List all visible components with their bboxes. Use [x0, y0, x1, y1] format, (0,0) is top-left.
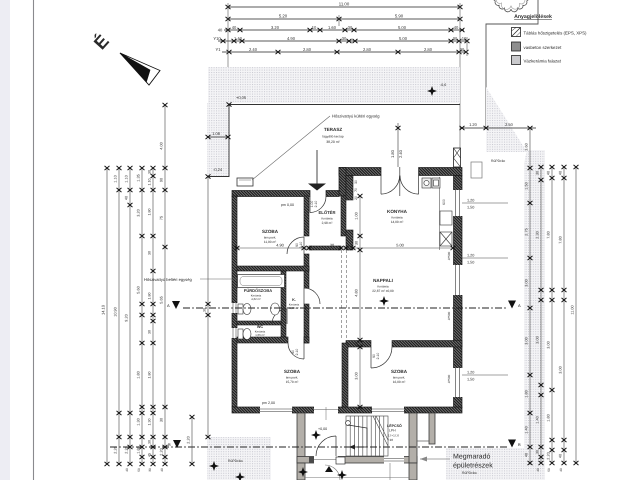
svg-text:5.00: 5.00 — [399, 36, 408, 41]
door dim labels szoba BR — [372, 353, 380, 360]
svg-text:épületrészek: épületrészek — [453, 462, 493, 470]
svg-text:1.10: 1.10 — [114, 175, 118, 182]
svg-text:1.10: 1.10 — [148, 179, 152, 186]
interior wall eloter bottom — [309, 246, 341, 250]
below lobby wall right — [409, 463, 417, 480]
svg-text:1,20: 1,20 — [467, 254, 474, 258]
svg-text:1,50: 1,50 — [467, 206, 474, 210]
svg-text:2.40: 2.40 — [249, 47, 258, 52]
top dim row 2 — [226, 17, 463, 21]
svg-text:1,50: 1,50 — [467, 378, 474, 382]
svg-text:50: 50 — [547, 468, 551, 472]
svg-text:ELŐTÉR: ELŐTÉR — [319, 210, 336, 215]
sparkle lobby — [311, 430, 321, 440]
svg-text:1.50: 1.50 — [525, 182, 529, 189]
svg-text:30: 30 — [355, 342, 359, 346]
section marker A right — [508, 301, 521, 309]
right dim chain 3 — [550, 165, 555, 465]
lobby door arc — [316, 436, 336, 456]
kitchen stove — [440, 232, 452, 246]
kitchen counter — [439, 177, 441, 250]
interior wall eloter east — [341, 196, 346, 236]
svg-text:SZOBA: SZOBA — [262, 229, 279, 234]
svg-text:Hőszivattyú kültéri egység: Hőszivattyú kültéri egység — [332, 114, 380, 119]
svg-text:3.00: 3.00 — [547, 341, 551, 348]
svg-text:Y10: Y10 — [213, 36, 221, 41]
sparkle terrace right — [427, 86, 437, 96]
lobby wall left — [297, 413, 305, 463]
svg-text:2.75: 2.75 — [525, 228, 529, 235]
svg-text:+0,05: +0,05 — [236, 95, 247, 100]
lobby door gap bottom — [314, 456, 338, 464]
svg-text:5.60: 5.60 — [137, 286, 141, 293]
room label KONYHA — [387, 209, 408, 224]
legend item 1 insulation — [512, 28, 587, 37]
svg-text:1.60: 1.60 — [328, 25, 337, 30]
svg-text:2.30: 2.30 — [536, 231, 540, 238]
interior wall K east upper — [304, 271, 309, 288]
door south lobby gap — [314, 407, 338, 414]
svg-text:40: 40 — [125, 468, 129, 472]
svg-text:1.40: 1.40 — [234, 36, 243, 41]
svg-text:40: 40 — [559, 454, 563, 458]
page frame vertical line — [33, 0, 35, 480]
svg-text:SZOBA: SZOBA — [391, 369, 408, 374]
svg-text:1.80: 1.80 — [137, 446, 141, 453]
interior dim vertical nappali — [358, 194, 363, 409]
svg-text:30: 30 — [148, 251, 152, 255]
svg-text:7.80: 7.80 — [547, 231, 551, 238]
right dim chain 1 — [528, 128, 533, 465]
window west bath — [232, 303, 238, 313]
svg-text:SZOBA: SZOBA — [284, 369, 301, 374]
room label NAPPALI — [372, 278, 394, 293]
bathtub — [238, 275, 285, 288]
svg-text:Megmaradó: Megmaradó — [453, 453, 490, 461]
window callout east 2 — [462, 254, 508, 265]
svg-text:1.40: 1.40 — [525, 426, 529, 433]
room label SZOBA bottom left — [284, 369, 301, 384]
svg-text:30: 30 — [460, 47, 465, 52]
svg-text:3.00: 3.00 — [559, 366, 563, 373]
svg-text:Táblás hőszigetelés (EPS, XPS): Táblás hőszigetelés (EPS, XPS) — [524, 31, 587, 36]
outer wall top left section — [232, 191, 339, 197]
svg-text:1.80: 1.80 — [525, 390, 529, 397]
right dim chain 2 — [539, 165, 544, 465]
interior wall wc bottom — [237, 337, 288, 343]
svg-text:30: 30 — [203, 308, 207, 312]
svg-text:40: 40 — [547, 171, 551, 175]
dim extension lines — [228, 3, 467, 167]
room label K — [289, 298, 300, 310]
window south 2 — [372, 407, 404, 414]
svg-text:1,06 m²: 1,06 m² — [255, 333, 265, 337]
stipple bottom right block — [446, 448, 528, 480]
kitchen sink — [422, 178, 440, 188]
section marker A left — [167, 301, 180, 309]
kitchen fridge — [440, 211, 452, 225]
interior dim horizontal — [235, 246, 456, 250]
svg-text:30: 30 — [536, 450, 540, 454]
svg-text:10: 10 — [462, 36, 467, 41]
left dim chain 8 slab — [206, 177, 211, 440]
svg-text:30: 30 — [348, 25, 353, 30]
svg-text:14.10: 14.10 — [101, 304, 106, 315]
toilet wc — [238, 329, 251, 340]
room label FURDOSZOBA — [244, 288, 272, 301]
svg-text:30: 30 — [536, 171, 540, 175]
svg-text:Kerámia: Kerámia — [391, 216, 403, 220]
svg-text:40: 40 — [559, 171, 563, 175]
text Megmarado epuletreszek — [453, 453, 493, 470]
svg-text:11.00: 11.00 — [339, 2, 350, 7]
interior wall kitchen west upper — [346, 176, 353, 201]
window east 2 — [453, 265, 463, 295]
leader belteri — [200, 278, 237, 280]
svg-text:3.00: 3.00 — [525, 279, 529, 286]
svg-text:A: A — [167, 303, 170, 308]
svg-text:3.60: 3.60 — [525, 143, 529, 150]
svg-text:14,00 m²: 14,00 m² — [391, 220, 404, 224]
left dim chain 1 — [105, 166, 110, 466]
interior wall szoba-eloter upper — [304, 196, 309, 236]
svg-text:2.20: 2.20 — [125, 446, 129, 453]
section marker B right — [508, 440, 521, 448]
lobby door jambs — [309, 457, 314, 464]
svg-text:70: 70 — [354, 188, 358, 192]
svg-text:LPH: LPH — [389, 429, 396, 433]
svg-text:1.80: 1.80 — [547, 414, 551, 421]
right dim chain 4 — [562, 165, 567, 465]
svg-text:pm 0,00: pm 0,00 — [281, 203, 294, 207]
svg-text:1.00: 1.00 — [355, 212, 359, 219]
entry arrow marker — [308, 150, 326, 191]
interior wall K west — [281, 271, 286, 337]
svg-text:30: 30 — [148, 170, 152, 174]
svg-text:2.80: 2.80 — [424, 47, 433, 52]
stair walk line — [346, 421, 367, 450]
room label SZOBA top left — [262, 229, 279, 244]
interior wall below szoba TL — [237, 266, 309, 271]
svg-text:B: B — [518, 442, 521, 447]
svg-text:22,87 m² ±0,00: 22,87 m² ±0,00 — [372, 289, 394, 293]
svg-text:30: 30 — [148, 468, 152, 472]
window south 1 — [260, 407, 292, 414]
svg-text:WC: WC — [257, 325, 264, 329]
svg-text:2.20: 2.20 — [547, 452, 551, 459]
svg-text:2.10: 2.10 — [295, 349, 299, 356]
top dim row 4 — [218, 39, 470, 43]
left dim chain 4 — [140, 166, 145, 466]
svg-text:LÉPCSŐ: LÉPCSŐ — [387, 423, 402, 428]
svg-text:2.80: 2.80 — [363, 47, 372, 52]
top dim row 3 — [224, 28, 465, 32]
svg-text:KONYHA: KONYHA — [387, 209, 408, 214]
svg-text:2.20: 2.20 — [160, 448, 164, 455]
sparkle below lobby 1 — [298, 467, 308, 477]
heat pump outdoor unit — [237, 178, 253, 186]
window west wc — [232, 328, 238, 338]
svg-text:2.10: 2.10 — [376, 353, 380, 360]
outer wall top right section — [339, 168, 462, 197]
room label WC — [255, 325, 266, 337]
svg-text:2.20: 2.20 — [187, 436, 191, 443]
site boundary line — [486, 0, 538, 128]
svg-text:11.00: 11.00 — [571, 305, 575, 314]
svg-text:vasbeton szerkezet: vasbeton szerkezet — [524, 45, 563, 50]
svg-text:JP500: JP500 — [447, 311, 451, 320]
svg-text:1.20: 1.20 — [469, 122, 478, 127]
svg-text:Kerámia: Kerámia — [321, 217, 333, 221]
door dim labels szoba BL — [291, 349, 299, 356]
sparkle bottom left — [209, 461, 219, 471]
svg-text:40: 40 — [525, 453, 529, 457]
outer wall right — [454, 176, 463, 408]
existing wall stub right of lobby — [429, 413, 435, 444]
bottom tick labels left — [125, 468, 164, 472]
left dim chain 2 — [117, 166, 122, 466]
toilet bath — [238, 304, 251, 315]
svg-text:3.00: 3.00 — [355, 372, 359, 379]
outer wall left — [232, 196, 237, 407]
svg-text:lam.park.: lam.park. — [264, 236, 277, 240]
svg-text:3.20: 3.20 — [271, 25, 280, 30]
svg-text:4.80: 4.80 — [355, 289, 359, 296]
svg-text:75: 75 — [160, 216, 164, 220]
svg-text:5.00: 5.00 — [396, 243, 404, 248]
svg-text:Kerámia: Kerámia — [377, 285, 389, 289]
window east 1 — [453, 190, 463, 216]
svg-text:K.: K. — [292, 298, 296, 302]
section line A — [183, 307, 508, 309]
left dim chain 7 short — [190, 415, 195, 466]
svg-text:15,70 m²: 15,70 m² — [286, 380, 299, 384]
svg-text:1.10: 1.10 — [125, 175, 129, 182]
below lobby wall left — [297, 463, 305, 480]
section marker B left — [168, 440, 181, 448]
lobby wall right — [409, 413, 417, 463]
svg-text:1.30: 1.30 — [148, 419, 152, 426]
terrace slab edge left — [208, 105, 229, 177]
door dim labels entry — [310, 201, 318, 208]
window callout east 3 — [462, 371, 508, 382]
svg-text:2.40: 2.40 — [398, 149, 403, 158]
svg-text:FÜRDŐSZOBA: FÜRDŐSZOBA — [244, 288, 272, 293]
legend item 2 concrete — [512, 42, 563, 51]
outer wall bottom — [232, 407, 462, 413]
sparkle bottom mid — [235, 472, 245, 480]
right bottom tick labels — [536, 468, 563, 472]
svg-text:7.80: 7.80 — [559, 236, 563, 243]
corner mark +0.05 — [227, 102, 232, 106]
svg-text:38,20 m²: 38,20 m² — [326, 140, 340, 144]
svg-text:40: 40 — [232, 25, 237, 30]
svg-text:2.10: 2.10 — [299, 242, 303, 249]
svg-text:50: 50 — [137, 468, 141, 472]
svg-text:Hőszivattyú beltéri egység: Hőszivattyú beltéri egység — [144, 277, 193, 282]
svg-text:2.10: 2.10 — [314, 201, 318, 208]
leader arrow megmarado — [420, 457, 450, 462]
svg-text:1,20: 1,20 — [467, 371, 474, 375]
svg-text:1.30: 1.30 — [137, 418, 141, 425]
right dim chain 5 — [574, 165, 579, 465]
svg-text:pm 2,00: pm 2,00 — [262, 401, 275, 405]
svg-text:B: B — [168, 442, 171, 447]
chimney top right — [454, 148, 461, 167]
legend item 3 masonry — [512, 56, 562, 65]
svg-text:11,00 m²: 11,00 m² — [264, 240, 276, 244]
svg-text:1.40: 1.40 — [536, 416, 540, 423]
svg-text:2.20: 2.20 — [114, 446, 118, 453]
interior wall K east lower — [304, 304, 309, 343]
svg-text:Y1: Y1 — [215, 47, 221, 52]
door K — [304, 288, 320, 304]
svg-text:1,50: 1,50 — [467, 261, 474, 265]
stipple left column — [207, 103, 230, 176]
svg-text:90: 90 — [160, 178, 164, 182]
window type labels east wall — [447, 251, 451, 383]
svg-text:-0,24: -0,24 — [213, 167, 223, 172]
passage dashed opening — [342, 250, 347, 340]
svg-text:-0,6: -0,6 — [440, 83, 446, 87]
svg-text:4.00: 4.00 — [160, 142, 164, 149]
svg-text:1.80: 1.80 — [390, 149, 395, 158]
svg-text:lam.park.: lam.park. — [393, 376, 406, 380]
svg-text:40: 40 — [125, 196, 129, 200]
french door leaves terrace — [381, 167, 419, 196]
door szoba BL — [288, 343, 304, 359]
svg-text:20: 20 — [354, 196, 358, 200]
svg-text:30: 30 — [342, 36, 347, 41]
svg-text:3.00: 3.00 — [525, 337, 529, 344]
interior wall nappali-szoba divider — [346, 341, 371, 348]
door bath — [272, 309, 287, 324]
svg-text:5.20: 5.20 — [279, 14, 288, 19]
svg-text:40: 40 — [536, 468, 540, 472]
north arrow — [120, 53, 160, 85]
dim 1.20 2.50 top right — [460, 127, 536, 129]
svg-text:30: 30 — [355, 241, 359, 245]
left page margin band — [0, 0, 10, 480]
door marker triangle — [325, 466, 333, 472]
interior wall szoba-eloter lower — [304, 254, 309, 271]
svg-text:NAPPALI: NAPPALI — [373, 278, 393, 283]
svg-text:1.35: 1.35 — [137, 174, 141, 181]
window callout east 1 — [462, 199, 508, 210]
left dim chain 6 — [163, 103, 168, 466]
sparkle nappali — [379, 296, 389, 306]
svg-text:JP500: JP500 — [447, 251, 451, 260]
section line B — [110, 446, 508, 448]
svg-text:RüPDcke: RüPDcke — [491, 159, 505, 163]
svg-text:9.20: 9.20 — [125, 314, 129, 321]
svg-text:1.80: 1.80 — [148, 209, 152, 216]
door dim labels szoba TL — [295, 242, 303, 249]
window east 3 — [453, 368, 463, 397]
svg-text:17×17,6: 17×17,6 — [388, 434, 399, 438]
lobby wall bottom — [297, 457, 417, 464]
interior wall szoba BL-BR divider — [342, 343, 348, 407]
washbasin bath — [271, 303, 280, 315]
svg-text:10.90: 10.90 — [114, 307, 118, 317]
svg-text:30: 30 — [148, 330, 152, 334]
svg-text:fagyálló ker.lap: fagyálló ker.lap — [322, 135, 343, 139]
svg-text:2.80: 2.80 — [303, 47, 312, 52]
svg-text:lam.park.: lam.park. — [286, 376, 299, 380]
kitchen west dim labels — [354, 180, 358, 200]
below lobby lines — [305, 463, 409, 480]
terrace slab edge top — [229, 104, 460, 106]
svg-text:5.90: 5.90 — [395, 14, 404, 19]
svg-text:40: 40 — [454, 25, 459, 30]
door szoba TL — [287, 237, 304, 254]
svg-text:30: 30 — [453, 36, 458, 41]
terrace door dim line — [397, 123, 399, 167]
svg-text:5.65: 5.65 — [160, 296, 164, 303]
svg-text:4.90: 4.90 — [276, 243, 284, 248]
dim 1.08 left of terrace — [207, 136, 229, 138]
room label SZOBA bottom right — [391, 369, 408, 384]
north label É — [90, 31, 113, 53]
sparkle below lobby 2 — [337, 470, 347, 480]
interior wall kitchen west lower — [346, 230, 353, 250]
svg-text:+0,00: +0,00 — [318, 427, 327, 431]
svg-text:TERASZ: TERASZ — [324, 127, 343, 132]
lobby window bottom — [384, 456, 404, 464]
top dim row 1 — [226, 5, 463, 9]
door szoba BR — [371, 347, 392, 368]
svg-text:1.08: 1.08 — [212, 131, 221, 136]
staircase — [346, 416, 388, 456]
svg-text:RüPDckw: RüPDckw — [462, 471, 477, 475]
svg-text:600: 600 — [442, 199, 446, 205]
svg-text:/ 28: / 28 — [388, 438, 393, 442]
interior wall bath-wc divider — [237, 321, 281, 325]
svg-text:16,00 m²: 16,00 m² — [393, 380, 406, 384]
svg-text:1,20: 1,20 — [467, 199, 474, 203]
svg-text:3.00: 3.00 — [536, 336, 540, 343]
svg-text:40: 40 — [218, 28, 223, 33]
left dim chain 5 — [151, 166, 156, 466]
side annex rect right — [471, 162, 482, 178]
svg-text:40: 40 — [559, 468, 563, 472]
stipple top band existing area — [208, 67, 460, 103]
svg-text:A: A — [518, 303, 521, 308]
stipple bottom left block — [207, 437, 271, 480]
stipple right wedge — [486, 87, 527, 152]
svg-text:30: 30 — [148, 440, 152, 444]
svg-text:45: 45 — [148, 453, 152, 457]
room label ELOTER — [319, 210, 336, 225]
svg-text:RüPDckw: RüPDckw — [228, 459, 243, 463]
svg-text:30: 30 — [160, 418, 164, 422]
top dim row 5 — [222, 50, 469, 54]
south door center line — [325, 407, 327, 420]
svg-text:2,98 m²: 2,98 m² — [322, 221, 333, 225]
svg-text:4.90: 4.90 — [287, 36, 296, 41]
svg-text:3.20: 3.20 — [137, 209, 141, 216]
tree symbol — [493, 0, 528, 12]
svg-text:30: 30 — [354, 180, 358, 184]
left dim chain 3 — [128, 166, 133, 466]
corner mark -0.24 — [206, 174, 211, 178]
stipple right strip — [524, 150, 545, 480]
svg-text:2.50: 2.50 — [505, 122, 514, 127]
svg-text:1.80: 1.80 — [148, 293, 152, 300]
svg-text:10: 10 — [312, 25, 317, 30]
svg-text:4,62 m²: 4,62 m² — [251, 297, 261, 301]
svg-text:Anyagjelölések: Anyagjelölések — [514, 14, 552, 20]
